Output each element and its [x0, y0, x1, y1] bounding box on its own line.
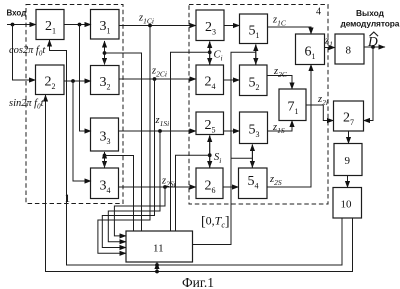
wire input branch to 2-2 — [13, 25, 36, 81]
junction output — [371, 45, 375, 49]
wire sin feedback from 10 to 2-2 — [46, 95, 353, 272]
svg-text:z2i: z2i — [317, 94, 328, 107]
wire 2-4 to 5-2 — [224, 79, 240, 81]
wire feedback from output to 2-7 — [364, 47, 374, 121]
svg-text:z2Si: z2Si — [161, 176, 176, 189]
block 2-6 — [196, 168, 223, 199]
svg-text:Выход: Выход — [356, 8, 385, 18]
svg-text:z2C: z2C — [273, 66, 288, 79]
wire z1Si drop to 11 — [108, 131, 160, 242]
svg-text:z1: z1 — [324, 36, 333, 49]
svg-text:8: 8 — [346, 45, 352, 57]
svg-text:sin2π f0t: sin2π f0t — [9, 98, 45, 111]
block 3-2 — [91, 66, 120, 95]
wire 2-5 to 5-3 — [224, 130, 240, 132]
svg-text:z2S: z2S — [269, 174, 282, 187]
wire z1S from 5-3 to 7-1 bottom — [268, 121, 293, 132]
junction after 2-2 — [71, 79, 75, 83]
block 2-1 — [36, 10, 64, 40]
wire z1Ci drop to 11 — [98, 26, 150, 254]
wire z2Ci drop to 11 — [102, 79, 154, 248]
wire cos feedback from 10 to 2-1 — [50, 40, 343, 265]
junction z2Ci — [153, 77, 157, 81]
wire branch 2-1 output to 3-3 — [80, 25, 92, 132]
block 8 — [335, 34, 364, 64]
svg-text:11: 11 — [153, 243, 164, 255]
svg-text:z1Ci: z1Ci — [138, 13, 154, 26]
wire Si to generator — [176, 155, 210, 231]
wire interval bus branch to 5-3/5-4 link — [231, 157, 252, 159]
svg-text:1: 1 — [65, 193, 71, 205]
wire 3 link S to generator — [105, 156, 134, 232]
svg-text:z1S: z1S — [272, 122, 285, 135]
block 11 — [126, 231, 193, 262]
wire z2C from 5-2 to 7-1 top — [267, 76, 292, 90]
wire z1Ci from 3-1 to 2-3 — [119, 25, 196, 27]
svg-text:демодулятора: демодулятора — [341, 19, 400, 29]
wire output of 8 — [364, 46, 385, 48]
wire 2-2 to 3-2 — [64, 80, 91, 82]
block 2-4 — [196, 65, 224, 95]
dashed box 1 (correlator unit) — [26, 5, 123, 204]
block 9 — [334, 144, 362, 176]
svg-text:4: 4 — [316, 7, 321, 18]
block 5-3 — [240, 112, 268, 144]
wire z2i from 7-1 to 2-7 — [306, 105, 334, 121]
wire z2Si from 3-4 to 2-6 — [119, 186, 197, 188]
svg-text:z1C: z1C — [272, 15, 287, 28]
link 3-1/3-2 double arrow — [104, 41, 106, 65]
link 2-5/2-6 double arrow — [209, 136, 211, 168]
wire 2-3 to 5-1 — [224, 25, 240, 27]
svg-text:Si: Si — [214, 152, 221, 165]
link 2-3/2-4 double arrow — [209, 42, 211, 65]
wire z2Si drop to 11 — [114, 187, 165, 236]
wire input horizontal — [7, 24, 36, 26]
wire z1 from 6-1 to 8 — [325, 47, 336, 49]
junction 11 tap on cos line — [155, 263, 159, 267]
block 2-5 — [196, 112, 224, 135]
block 3-1 — [91, 10, 120, 40]
wire interval bus from 11 to 5-1/5-2 link — [193, 52, 256, 244]
svg-text:cos2π f0t: cos2π f0t — [9, 45, 46, 58]
wire 9 to 10 — [347, 176, 349, 188]
block 2-7 — [334, 101, 364, 131]
svg-text:z2Ci: z2Ci — [151, 66, 167, 79]
wire 2-1 to 3-1 — [64, 24, 91, 26]
junction after 2-1 — [78, 23, 82, 27]
junction z1Si — [158, 129, 162, 133]
block 6-1 — [296, 34, 325, 65]
svg-text:Фиг.1: Фиг.1 — [182, 275, 214, 289]
link 3-3/3-4 double arrow — [104, 152, 106, 168]
svg-text:z1Si: z1Si — [155, 115, 170, 128]
wire z1Si from 3-3 to 2-5 — [119, 130, 197, 132]
block 5-4 — [239, 168, 268, 199]
block 3-4 — [91, 168, 119, 199]
block 5-2 — [240, 65, 268, 96]
junction z2Si — [163, 185, 167, 189]
wire 3 link C to generator — [105, 53, 142, 231]
wire z2Ci from 3-2 to 2-4 — [119, 78, 196, 80]
junction 11 tap on sin line — [155, 270, 159, 274]
wire 2-6 to 5-4 — [223, 186, 239, 188]
wire Ci to generator — [171, 52, 210, 231]
junction Ci — [208, 50, 212, 54]
block 3-3 — [91, 118, 119, 151]
junction 3-3/3-4 link — [103, 154, 107, 158]
wire 11 bottom tap — [156, 263, 158, 272]
junction 3-1/3-2 link — [103, 51, 107, 55]
block 10 — [333, 188, 362, 219]
svg-text:10: 10 — [341, 199, 353, 211]
block 2-3 — [196, 10, 224, 41]
block 7-1 — [279, 89, 306, 121]
junction Si — [208, 153, 212, 157]
junction z1Ci — [148, 24, 152, 28]
wire 2-7 to 9 — [348, 131, 350, 144]
svg-text:D: D — [367, 34, 378, 49]
junction input — [11, 23, 15, 27]
link 5-1/5-2 double arrow — [255, 45, 257, 65]
svg-text:Вход: Вход — [7, 9, 27, 18]
block 2-2 — [36, 65, 65, 95]
wire branch 2-2 output to 3-4 — [73, 81, 91, 181]
wire z2S from 5-4 to 6-1 bottom — [267, 65, 311, 188]
dashed box 4 (processing unit) — [189, 5, 328, 205]
svg-text:Ci: Ci — [214, 50, 223, 63]
wire z1C from 5-1 to 6-1 top — [268, 27, 312, 34]
svg-text:9: 9 — [345, 155, 351, 167]
block 5-1 — [240, 14, 268, 44]
svg-text:[0,Tc]: [0,Tc] — [201, 214, 230, 230]
link 5-3/5-4 double arrow — [251, 145, 253, 168]
